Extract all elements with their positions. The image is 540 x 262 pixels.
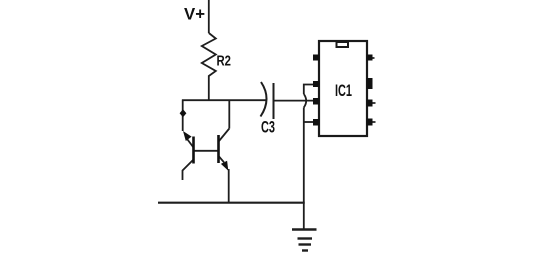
svg-text:V+: V+ [184,5,205,24]
svg-text:IC1: IC1 [335,82,352,100]
svg-text:R2: R2 [217,53,232,70]
svg-text:C3: C3 [261,118,275,137]
